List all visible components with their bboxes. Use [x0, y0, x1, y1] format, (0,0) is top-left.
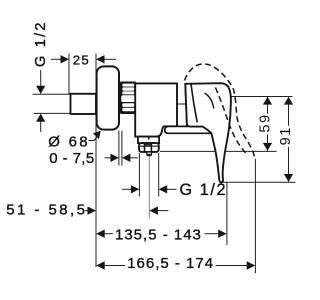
svg-text:51 - 58,5: 51 - 58,5: [6, 202, 87, 219]
dim 59 down arrow: [263, 143, 272, 151]
dim 166.5-174 right arrow: [216, 265, 248, 267]
svg-text:G 1/2: G 1/2: [33, 20, 49, 67]
dashed handle raised outer: [185, 64, 255, 159]
extension line nut flange: [121, 131, 123, 166]
handle hub edge: [191, 84, 197, 122]
svg-text:59: 59: [258, 113, 274, 132]
svg-text:0 - 7,5: 0 - 7,5: [49, 150, 94, 167]
extension line 166.5-174 right: [254, 159, 256, 274]
svg-text:Ø 68: Ø 68: [48, 133, 90, 150]
extension line escutcheon back: [118, 131, 120, 166]
svg-text:135,5 - 143: 135,5 - 143: [115, 226, 202, 243]
dim 135.5-143 right arrow: [205, 233, 219, 235]
svg-text:25: 25: [73, 53, 90, 68]
escutcheon: [97, 66, 119, 129]
wall face extension line: [95, 54, 97, 268]
dashed handle raised inner: [216, 88, 247, 154]
dim G1/2 top lower arrow: [40, 122, 42, 132]
handle thumb groove: [205, 93, 214, 109]
svg-text:91: 91: [278, 126, 294, 145]
cartridge line: [185, 84, 187, 126]
extension line top right (supply level): [231, 96, 293, 98]
dim G1/2 bottom left arrow: [122, 188, 131, 190]
dim 51-58.5 right arrow: [158, 210, 169, 212]
extension line outlet thread left: [138, 153, 140, 197]
svg-text:G 1/2: G 1/2: [180, 181, 228, 199]
outlet nut: [139, 143, 159, 152]
centerline outlet: [148, 157, 150, 219]
dim 59 up arrow: [263, 97, 272, 105]
dim 51-58.5 left arrow: [85, 210, 88, 212]
dim G1/2 bottom right arrow: [167, 188, 177, 190]
dim 91 up arrow: [284, 97, 293, 105]
dim 135.5-143 left arrow: [105, 233, 114, 235]
extension line handle tip level: [223, 181, 296, 183]
outlet collar: [138, 137, 159, 144]
handle lever: [185, 83, 231, 182]
dim 25 right arrow: [104, 58, 116, 60]
leader O68: [89, 134, 100, 140]
supply pipe: [33, 94, 71, 113]
extension line outlet bottom level: [160, 150, 277, 152]
dimension line 91 vertical: [288, 97, 290, 182]
svg-text:166,5 - 174: 166,5 - 174: [127, 255, 214, 272]
S-connector block: [71, 94, 97, 114]
dim 91 down arrow: [284, 174, 293, 182]
dim 166.5-174 left arrow: [105, 265, 126, 267]
dim 0-7.5 left arrow: [105, 157, 111, 159]
valve body: [135, 83, 177, 136]
dim 0-7.5 right arrow: [130, 157, 138, 159]
extension line outlet thread right: [158, 153, 160, 197]
hub base plate: [165, 126, 212, 133]
outlet stub: [147, 152, 152, 156]
collar tick: [148, 137, 150, 140]
extension line 135.5-143 right: [226, 182, 228, 245]
dimension line 59 vertical: [267, 97, 269, 152]
union nut knurled: [120, 82, 136, 115]
extension line 25 left: [68, 54, 70, 95]
dim 25 left arrow: [51, 58, 61, 60]
outlet dot: [148, 154, 151, 157]
dim G1/2 top upper arrow: [40, 70, 42, 87]
cartridge tick: [178, 103, 185, 105]
